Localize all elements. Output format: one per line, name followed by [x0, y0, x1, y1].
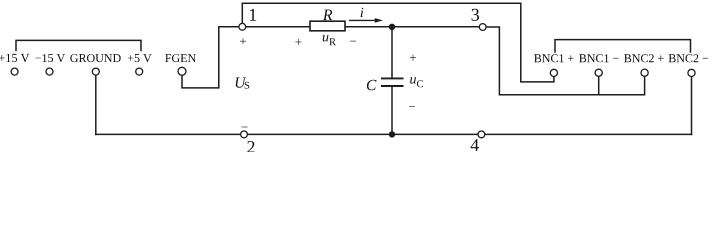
- polarity + of uR: [295, 39, 301, 45]
- terminal +15V: [11, 68, 18, 75]
- node 1: [239, 23, 246, 30]
- wire bottom rail: [96, 133, 692, 135]
- wire stub to BNC1-: [598, 76, 600, 94]
- junction dot top: [389, 24, 395, 30]
- wire capacitor bottom lead: [391, 86, 393, 134]
- label GROUND: [70, 54, 120, 62]
- terminal BNC2-: [688, 69, 695, 76]
- label i: [361, 8, 364, 17]
- label BNC2+: [624, 54, 664, 62]
- terminal BNC2+: [641, 69, 648, 76]
- BNC group bracket: [555, 40, 691, 52]
- wire node 3 to BNC2+: [486, 27, 644, 95]
- label BNC1-: [579, 54, 619, 62]
- node label 4: [471, 139, 479, 151]
- wire junction to node 3: [392, 26, 479, 28]
- label -15 V: [35, 54, 65, 62]
- label u_R subscript: [329, 38, 336, 45]
- label +15 V: [0, 54, 29, 62]
- node label 2: [247, 141, 254, 153]
- terminal BNC1+: [550, 69, 557, 76]
- polarity - of uC: [409, 105, 415, 108]
- label C: [367, 80, 377, 90]
- label u_R: [323, 35, 329, 42]
- wire node 1 to resistor: [246, 26, 310, 28]
- wire ground stub: [95, 75, 97, 134]
- capacitor C plates: [381, 78, 404, 86]
- node 4: [478, 131, 485, 138]
- label BNC1+: [534, 54, 574, 62]
- label U_S: [236, 78, 247, 88]
- node label 3: [472, 9, 479, 21]
- node 2: [241, 131, 248, 138]
- polarity - of uR: [350, 40, 356, 43]
- polarity - of Us at node 2: [242, 126, 248, 129]
- label u_C: [410, 77, 416, 84]
- label FGEN: [165, 54, 196, 62]
- wire BNC2- to rail: [691, 77, 693, 135]
- node 3: [479, 24, 486, 31]
- junction dot bottom: [389, 131, 395, 137]
- current arrow i: [349, 18, 383, 23]
- polarity + of Us at node 1: [240, 38, 246, 44]
- wire capacitor top lead: [391, 27, 393, 78]
- polarity + of uC: [410, 55, 416, 61]
- wire FGEN to node 1: [182, 27, 239, 88]
- label U_S subscript: [245, 82, 250, 89]
- node label 1: [250, 9, 256, 21]
- terminal +5V: [136, 68, 143, 75]
- terminal FGEN: [178, 67, 186, 75]
- wire top: node 1 to BNC1+: [242, 3, 554, 82]
- label BNC2-: [669, 54, 709, 62]
- label +5 V: [128, 54, 152, 62]
- label u_C subscript: [417, 80, 423, 87]
- label R: [323, 10, 333, 21]
- resistor R body: [310, 21, 345, 31]
- terminal BNC1-: [595, 69, 602, 76]
- terminal -15V: [46, 68, 53, 75]
- wire resistor to junction: [345, 26, 392, 28]
- supply group bracket: [16, 40, 141, 50]
- terminal GROUND: [92, 68, 99, 75]
